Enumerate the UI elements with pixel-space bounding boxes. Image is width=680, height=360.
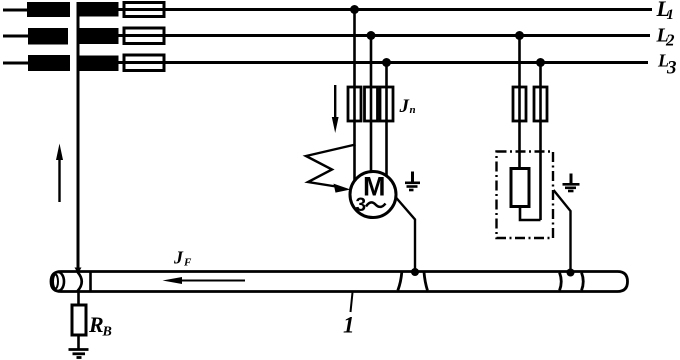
svg-text:3: 3 [666,58,677,79]
pipe socket joint middle [398,272,428,291]
svg-text:F: F [183,257,192,269]
pipe socket joint near left end [78,272,91,291]
label L1 [656,0,675,23]
fuse F8 appliance branch L3 [534,87,547,121]
wire L2 phase conductor [3,34,650,38]
node motor earth connection dot on pipe [411,268,419,276]
wire motor feeder phase from L1 [353,10,356,182]
fuse F1 in line L1 [124,3,164,17]
label 3~ motor phases [356,195,386,216]
transformer T1 primary winding phase 1 [27,2,70,17]
pipe socket joint right [560,273,584,291]
svg-text:J: J [173,248,184,268]
label RB [88,312,112,340]
label JF fault current [173,248,192,269]
node junction dot on L2 motor tap [367,31,376,40]
wire L3 phase conductor [3,61,648,65]
fuse F2 in line L2 [124,28,164,44]
fault current arrow JF in pipe pointing left [163,277,246,284]
svg-text:R: R [88,312,104,337]
transformer T1 secondary winding phase 2 [79,28,119,44]
svg-text:3: 3 [356,195,367,216]
svg-text:1: 1 [343,313,355,338]
node junction dot on L1 motor tap [350,5,359,14]
transformer T1 primary winding phase 3 [28,55,70,71]
wire motor feeder phase from L3 [385,63,388,177]
resistor RB earthing resistance [72,292,86,350]
wire PEN earthing conductor from transformer neutral [77,2,80,272]
wire motor feeder phase from L2 [370,36,373,173]
fuse F4 motor branch phase 1 [348,87,361,121]
earthing pipe electrode body [51,272,628,292]
resistor heating element R1 inside appliance [511,169,529,207]
motor M1 circle 3-phase [350,172,396,218]
node junction dot on L3 motor tap [382,58,391,67]
svg-text:1: 1 [667,7,675,23]
node appliance earth connection dot on pipe [567,269,575,277]
transformer T1 secondary winding phase 3 [79,56,119,72]
wire motor frame to earthing pipe [396,197,416,272]
svg-text:B: B [102,325,112,340]
label M motor [363,172,386,202]
ground symbol below RB [69,350,89,358]
node junction dot on L3 appliance tap [536,58,545,67]
appliance enclosure dash-dot box [497,152,554,239]
transformer T1 primary winding phase 2 [28,28,68,45]
wire appliance feeder from L2 [518,36,521,170]
fuse F6 motor branch phase 3 [380,87,393,121]
wire appliance feeder from L3 [539,63,542,221]
wire element bottom return to L3 feeder [520,207,541,221]
ground symbol at appliance enclosure [563,174,580,192]
fault zigzag arrow to motor frame [306,145,356,193]
label L2 [656,25,676,50]
transformer T1 secondary winding phase 1 [79,2,119,17]
fuse F7 appliance branch L2 [513,87,526,121]
svg-text:2: 2 [665,31,675,50]
ground symbol at motor frame [405,172,420,191]
wire L1 phase conductor [3,8,652,12]
pipe left end cap ellipse [52,272,64,291]
fuse F3 in line L3 [124,55,164,71]
fuse F5 motor branch phase 2 [365,87,378,121]
svg-text:M: M [363,172,386,202]
label L3 [657,51,677,79]
current direction arrow up PEN conductor [56,144,63,203]
node junction dot on L2 appliance tap [515,31,524,40]
current direction arrow down motor branch [332,85,339,133]
wire appliance enclosure to earthing pipe [554,190,571,272]
label Jn nominal current [399,96,416,117]
svg-text:J: J [399,96,410,117]
label 1 pipe electrode with leader line [343,293,355,338]
node PEN conductor connection to pipe [75,268,82,274]
svg-text:n: n [410,104,416,116]
